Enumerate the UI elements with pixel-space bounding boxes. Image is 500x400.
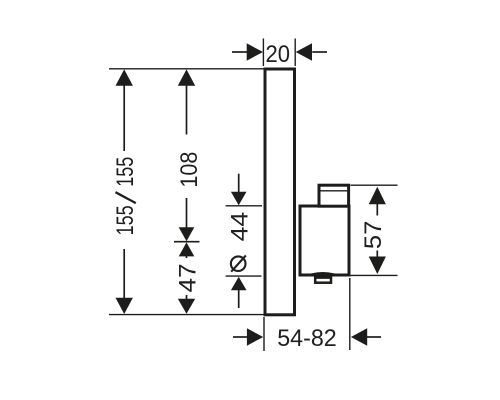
dim dia44 label diameter symbol bbox=[231, 256, 246, 271]
svg-text:54-82: 54-82 bbox=[277, 326, 337, 352]
dim 20 line left bbox=[232, 51, 247, 53]
handle step inner line bbox=[321, 190, 348, 192]
dim 47 arrow top bbox=[179, 242, 195, 256]
dim 155/155 arrow bottom bbox=[116, 298, 133, 314]
handle step (upper knob) bbox=[319, 185, 349, 206]
dim dia44 line bbox=[238, 174, 240, 308]
svg-text:108: 108 bbox=[177, 152, 203, 188]
svg-text:155: 155 bbox=[113, 157, 139, 187]
extension line 54-82 right bbox=[349, 278, 351, 350]
dim 54-82 arrow right bbox=[351, 328, 367, 345]
extension line 20 left bbox=[262, 39, 264, 67]
dim 54-82 arrow left bbox=[247, 328, 263, 345]
svg-text:57: 57 bbox=[361, 221, 387, 250]
dim 57 arrow top bbox=[369, 187, 386, 205]
dim 20 arrow left bbox=[247, 43, 263, 60]
dim 57 line bbox=[376, 203, 378, 259]
dim 155/155 line bbox=[123, 84, 125, 300]
wall plate (escutcheon, side view) bbox=[265, 69, 295, 315]
dim 155/155 arrow top bbox=[116, 69, 133, 85]
dim 108 arrow bottom bbox=[179, 227, 195, 241]
svg-text:47: 47 bbox=[175, 264, 201, 293]
dim 108 line bbox=[186, 84, 188, 228]
dim 47 arrow bottom bbox=[178, 299, 195, 314]
tick dia44 top bbox=[226, 205, 262, 207]
extension line 57 top bbox=[351, 184, 398, 186]
extension line 54-82 left bbox=[263, 317, 265, 351]
dim 54-82 line right bbox=[367, 336, 381, 338]
bump on body bottom bbox=[312, 273, 335, 274]
tick dia44 bottom bbox=[226, 275, 262, 277]
dim 57 arrow bottom bbox=[369, 257, 386, 275]
bottom tab (clip) bbox=[315, 278, 331, 283]
dim 54-82 line left bbox=[233, 336, 247, 338]
axis tick bbox=[174, 241, 200, 243]
dim 155/155 slash bbox=[116, 192, 136, 203]
extension line bottom bbox=[109, 314, 264, 316]
dim dia44 arrow top bbox=[231, 192, 247, 206]
dim 108 arrow top bbox=[178, 69, 195, 85]
svg-text:44: 44 bbox=[228, 212, 254, 242]
dim 47 line bbox=[186, 256, 188, 300]
valve body (cartridge housing) bbox=[300, 206, 349, 275]
dim 20 arrow right bbox=[296, 43, 312, 60]
dim dia44 arrow bottom bbox=[231, 277, 247, 291]
extension line 57 bottom bbox=[351, 274, 398, 276]
extension line top bbox=[109, 68, 264, 70]
dim 20 line right bbox=[312, 51, 327, 53]
dim dia44 symbol slash bbox=[231, 256, 246, 272]
extension line 20 right bbox=[294, 39, 296, 67]
svg-text:20: 20 bbox=[266, 42, 291, 68]
svg-text:155: 155 bbox=[113, 205, 139, 235]
